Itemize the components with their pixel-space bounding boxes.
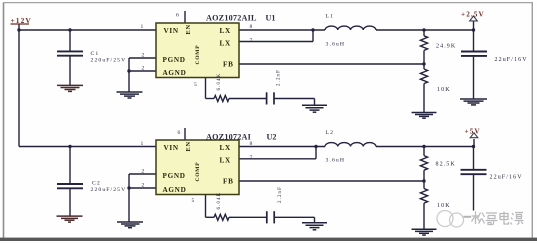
U1 pin name PGND (163, 56, 186, 64)
junction LX pins U2 (314, 145, 317, 148)
svg-text:LX: LX (220, 157, 231, 165)
capacitor compensation U2 plates (267, 211, 274, 223)
junction C2/rail (68, 145, 71, 148)
svg-text:6.04K: 6.04K (217, 73, 222, 91)
junction divider top node 2 (422, 145, 425, 148)
wire: L1 to output node (376, 29, 474, 31)
value label comp R2 (rotated) (217, 192, 222, 210)
junction output node 1 (472, 28, 475, 31)
U2 pin name EN (rotated) (185, 141, 192, 151)
U1 pin name EN (rotated) (185, 24, 192, 34)
svg-text:82.5K: 82.5K (436, 162, 456, 168)
svg-text:AGND: AGND (163, 186, 187, 194)
wire: U1 LX pin7 stub (239, 30, 313, 42)
inductor L2 (325, 143, 376, 147)
wire: U2 LX pin7 stub (239, 147, 316, 159)
wire: U1 FB to divider (239, 63, 424, 65)
wire: +12V rail to U1 VIN (19, 29, 156, 31)
svg-text:7: 7 (250, 38, 253, 44)
ground symbols (57, 85, 488, 235)
power port +2.5V lead (473, 21, 475, 30)
svg-text:FB: FB (223, 178, 234, 186)
svg-text:PGND: PGND (163, 172, 186, 180)
junction output node 2 (472, 145, 475, 148)
U1 pin name AGND (163, 69, 187, 77)
svg-text:22uF/16V: 22uF/16V (490, 175, 523, 181)
U2 pin name LX (pin 7) (220, 157, 231, 165)
junction AGND node (127, 69, 130, 72)
wire: PGND/AGND vertical to ground (128, 58, 130, 92)
value label L2 (326, 130, 346, 163)
svg-text:LX: LX (220, 144, 231, 152)
wire: C2 bottom lead (69, 189, 71, 216)
wire: U1 AGND (129, 70, 156, 72)
svg-text:1: 1 (141, 141, 144, 147)
U1 pin name LX (pin 8) (220, 27, 231, 35)
wire: U2 PGND/AGND vertical to ground (128, 174, 130, 222)
U2 pin name PGND (163, 172, 186, 180)
capacitor 22uF/16V plates (top section) (461, 52, 487, 56)
svg-text:COMP: COMP (195, 45, 201, 65)
capacitor compensation U1 plates (267, 92, 274, 104)
IC U1 refdes (266, 14, 276, 23)
junction C1/rail (68, 28, 71, 31)
U2 pin number 8 (250, 141, 253, 147)
value label 82.5K (436, 162, 456, 168)
junction FB node 1 (422, 62, 425, 65)
svg-text:VIN: VIN (164, 144, 179, 152)
ground (comp network U2) (302, 223, 327, 230)
pin 6 EN stub U1 (184, 11, 186, 23)
resistor compensation U1 (214, 96, 229, 102)
wire: output cap 2 top lead (473, 147, 475, 170)
U1 pin number 8 (250, 24, 253, 30)
svg-text:5: 5 (194, 82, 197, 88)
svg-text:PGND: PGND (163, 56, 186, 64)
wire: U1 PGND (129, 57, 156, 59)
U1 pin name FB (223, 61, 234, 69)
U2 pin number 1 (141, 141, 144, 147)
svg-text:220uF/25V: 220uF/25V (91, 187, 127, 193)
resistor R divider bottom 10K (420, 64, 427, 112)
U1 pin number 6 (176, 13, 179, 19)
wire: U2 COMP pin lead (206, 195, 215, 218)
svg-text:10K: 10K (437, 87, 451, 93)
junction LX pins U1 (311, 28, 314, 31)
value label 22uF/16V (top) (495, 57, 528, 63)
ground (comp network U1) (302, 105, 327, 112)
svg-text:10K: 10K (437, 203, 451, 209)
svg-text:24.9K: 24.9K (436, 44, 456, 50)
value label comp C1 (rotated) (277, 69, 282, 86)
junction divider top node 1 (422, 28, 425, 31)
wire: U1 COMP pin lead (206, 78, 215, 99)
svg-text:C1: C1 (91, 51, 100, 57)
svg-text:5: 5 (192, 198, 195, 204)
wire: comp R2 to comp C2 (229, 216, 267, 218)
svg-text:AOZ1072AIL: AOZ1072AIL (206, 14, 257, 23)
svg-text:2: 2 (142, 182, 145, 188)
junction AGND node 2 (127, 186, 130, 189)
wire: L2 to output node (376, 146, 474, 148)
capacitor C2 plates (57, 184, 83, 188)
svg-text:EN: EN (185, 24, 192, 34)
U2 pin name COMP (rotated) (195, 162, 201, 182)
border frame top (3, 2, 533, 4)
U1 pin number 7 (250, 38, 253, 44)
inductor L1 (325, 26, 376, 30)
resistor R divider top 82.5K (420, 147, 427, 182)
border frame left (3, 3, 5, 240)
watermark text 松哥电源 (drawn strokes) (472, 212, 524, 225)
svg-text:8: 8 (250, 141, 253, 147)
resistor compensation U2 (214, 214, 229, 220)
wire: U2 PGND (129, 173, 156, 175)
border frame bottom (0, 238, 537, 241)
svg-text:LX: LX (220, 40, 231, 48)
ground (divider 2) (412, 229, 437, 235)
resistor R divider bottom 10K (section 2) (420, 181, 427, 229)
U2 pin number 2 (AGND) (142, 182, 145, 188)
ground (C1) (57, 85, 83, 91)
svg-text:6: 6 (176, 13, 179, 19)
junction +12V stub/rail (17, 28, 20, 31)
U1 pin name VIN (164, 27, 179, 35)
svg-text:2: 2 (142, 168, 145, 174)
wire: U2 LX pin8 to inductor L2 (239, 146, 325, 148)
svg-text:220uF/25V: 220uF/25V (91, 57, 127, 63)
value label C1 (91, 51, 127, 63)
U1 pin number 2 (AGND) (142, 65, 145, 71)
svg-text:6.04K: 6.04K (217, 192, 222, 210)
U2 pin number 2 (142, 168, 145, 174)
svg-text:L2: L2 (326, 130, 335, 136)
IC U1 AOZ1072AIL body (156, 23, 239, 78)
power port +2.5V (461, 11, 485, 21)
svg-text:LX: LX (220, 27, 231, 35)
IC U2 part number label (206, 133, 251, 142)
capacitor 22uF/16V plates (bottom section) (461, 170, 487, 174)
U2 pin number 5 (192, 198, 195, 204)
capacitor C1 plates (57, 51, 83, 55)
svg-text:2.2nF: 2.2nF (277, 69, 282, 86)
value label comp C2 (rotated) (278, 186, 283, 203)
ground (C2) (57, 216, 83, 222)
wire: comp R to comp C (229, 98, 266, 100)
svg-text:U1: U1 (266, 14, 276, 23)
IC U2 AOZ1072AI body (156, 140, 239, 195)
U2 pin name LX (pin 8) (220, 144, 231, 152)
svg-text:3.6uH: 3.6uH (326, 157, 346, 163)
value label 22uF/16V (bottom) (490, 175, 523, 181)
svg-text:3.6uH: 3.6uH (326, 41, 346, 47)
value label C2 (91, 181, 127, 193)
value label 10K (divider 1) (437, 87, 451, 93)
value label comp R1 (rotated) (217, 73, 222, 91)
wire: C2 top lead (69, 147, 71, 184)
svg-text:COMP: COMP (195, 162, 201, 182)
wire: C1 bottom lead (69, 57, 71, 86)
U2 pin name AGND (163, 186, 187, 194)
U2 pin name VIN (164, 144, 179, 152)
svg-text:EN: EN (185, 141, 192, 151)
wire: output cap bottom lead (473, 57, 475, 99)
wire: output cap top lead (473, 30, 475, 51)
svg-text:1: 1 (141, 24, 144, 30)
wire: comp C2 to ground (274, 217, 314, 222)
pin 6 EN stub U2 (184, 128, 186, 140)
svg-text:2.2nF: 2.2nF (278, 186, 283, 203)
power port +5V (465, 127, 481, 137)
svg-text:2: 2 (142, 52, 145, 58)
resistor R divider top 24.9K (420, 30, 427, 64)
value label L1 (326, 14, 346, 48)
IC U2 refdes (267, 133, 277, 142)
wire: comp C to ground (274, 99, 315, 106)
junction FB node 2 (422, 179, 425, 182)
ground (output cap 1) (460, 99, 487, 105)
U1 pin name COMP (rotated) (195, 45, 201, 65)
U1 pin name LX (pin 7) (220, 40, 231, 48)
svg-text:7: 7 (250, 155, 253, 161)
watermark dash (464, 216, 472, 218)
power net +12V stub wire (18, 24, 20, 30)
value label 10K (divider 2) (437, 203, 451, 209)
svg-text:U2: U2 (267, 133, 277, 142)
svg-text:FB: FB (223, 61, 234, 69)
U1 pin number 1 (141, 24, 144, 30)
svg-text:8: 8 (250, 24, 253, 30)
ground (U1 PGND/AGND) (117, 92, 143, 98)
border frame right (531, 3, 533, 240)
wire: U1 LX pin8 to inductor L1 (239, 29, 325, 31)
watermark logo circles (437, 211, 464, 228)
U2 pin name FB (223, 178, 234, 186)
ground (divider 1) (412, 113, 437, 119)
U2 pin number 6 (178, 130, 181, 136)
wire: U2 FB to divider (239, 180, 424, 182)
wire: U2 AGND (129, 187, 156, 189)
net label +12V (11, 16, 32, 25)
U1 pin number 5 (194, 82, 197, 88)
svg-text:2: 2 (142, 65, 145, 71)
svg-text:VIN: VIN (164, 27, 179, 35)
U1 pin number 2 (142, 52, 145, 58)
power port +5V lead (473, 139, 475, 147)
value label 24.9K (436, 44, 456, 50)
wire: +12V rail section 2 to U2 VIN (19, 146, 156, 148)
wire: output cap 2 bottom lead (473, 175, 475, 211)
ground (U2 PGND/AGND) (117, 222, 143, 228)
wire: C1 top lead (69, 30, 71, 51)
U2 pin number 7 (250, 155, 253, 161)
wire: left vertical +12V feed to section 2 (18, 30, 20, 147)
svg-text:22uF/16V: 22uF/16V (495, 57, 528, 63)
IC U1 part number label (206, 14, 257, 23)
svg-text:AGND: AGND (163, 69, 187, 77)
svg-text:L1: L1 (326, 14, 335, 20)
svg-text:AOZ1072AI: AOZ1072AI (206, 133, 251, 142)
svg-text:6: 6 (178, 130, 181, 136)
svg-text:C2: C2 (92, 181, 101, 187)
